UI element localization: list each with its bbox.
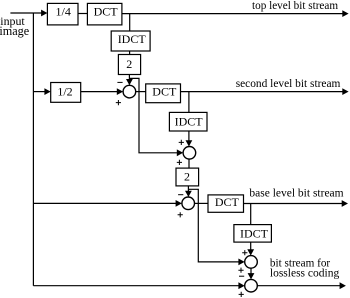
wire: top level output run [122,13,343,15]
svg-text:1/4: 1/4 [56,5,71,19]
block: IDCT top level [111,31,150,51]
block: IDCT base level [234,225,272,243]
svg-text:second level bit stream: second level bit stream [236,78,341,90]
arrowhead 1/2 into S1 left [117,88,123,95]
sign: plus at S2 left input [178,212,183,217]
wire: 1/2 to S1 [81,91,118,93]
arrowhead base level output [342,200,348,207]
block: upsample 2 (first) [118,55,140,75]
arrowhead lossless output [340,282,346,289]
block: 1/4 downscaler [47,3,78,25]
arrowhead IDCT2 into A1 [186,140,193,146]
wire: lossless output run [257,285,340,287]
wire: input to 1/4 box [10,12,42,14]
svg-text:base level bit stream: base level bit stream [249,187,343,199]
block: DCT base level [208,195,244,212]
wire: IDCT3 down to A2 [250,242,252,250]
svg-text:IDCT: IDCT [240,227,269,241]
sign: plus at A1 left input [177,160,182,165]
sign: minus at S2 top input [178,194,183,196]
svg-text:IDCT: IDCT [118,32,147,46]
block: DCT top level [87,3,122,25]
wire: second level output run [181,91,344,93]
wire: S2 to DCT3 [195,202,209,204]
svg-text:image: image [0,24,29,38]
wire: 1/4 to DCT1 connector [78,13,87,15]
svg-text:DCT: DCT [152,84,177,98]
wire: prediction bypass 2 [188,189,239,262]
wire: bottom branch to F [33,285,239,287]
arrowhead trunk into S2 [176,200,182,207]
summing node F (lossless residual) [245,279,258,292]
block: DCT second level [146,84,181,103]
sign: plus at F left input [239,292,244,297]
wire: prediction bypass 1 [129,78,177,152]
wire: junction drop DCT3 out to IDCT3 [250,204,252,225]
summing node S2 (base level difference) [182,197,195,210]
sign: plus at A1 top input [179,140,184,145]
svg-text:top level bit stream: top level bit stream [252,0,338,12]
svg-text:2: 2 [184,170,190,184]
sign: plus at A2 left input [238,268,243,273]
svg-text:DCT: DCT [94,5,119,19]
wire: A1 to 2b [188,159,190,168]
wire: junction drop DCT1 out to IDCT1 [129,14,131,31]
wire: left trunk vertical [32,13,34,286]
svg-text:2: 2 [126,57,132,71]
sign: minus at S1 top input [117,81,122,83]
wire: junction drop DCT2 out to IDCT2 [188,92,190,113]
svg-text:lossless coding: lossless coding [270,268,340,280]
wire: IDCT1 to 2a [129,51,131,55]
arrowhead bypass1 into A1 [177,149,183,156]
arrowhead second level output [342,88,348,95]
wire: trunk branch to 1/2 [33,91,45,93]
block: IDCT second level [169,112,207,131]
sign: minus at F top input [239,275,244,277]
block: upsample 2 (second) [176,168,199,186]
wire: trunk branch to S2 [33,202,176,204]
wire: IDCT2 down to A1 [188,131,190,141]
arrowhead into 1/4 [41,10,47,17]
svg-text:1/2: 1/2 [57,85,72,99]
arrowhead A2 into F [248,273,255,279]
wire: S1 to DCT2 [136,91,146,93]
arrowhead 2a into S1 [126,79,133,85]
svg-text:IDCT: IDCT [175,114,204,128]
arrowhead top level output [342,10,348,17]
arrowhead IDCT3 into A2 [247,249,254,255]
wire: 2b down to S2 [187,186,189,192]
arrowhead trunk into 1/2 [44,88,50,95]
arrowhead bypass2 into A2 [238,259,244,266]
sign: plus at A2 top input [242,250,247,255]
arrowhead trunk into F [238,282,244,289]
adder A2 (base reconstruction) [245,256,258,269]
summing node S1 (second level difference) [123,85,136,98]
svg-text:DCT: DCT [215,195,240,209]
arrowhead 2b into S2 [185,191,192,197]
adder A1 (second level reconstruction) [183,146,196,159]
wire: A2 down to F [250,268,252,274]
block: 1/2 downscaler [51,83,81,103]
wire: 2a down to S1 [128,75,130,81]
wire: base level output run [244,203,343,205]
sign: plus at S1 left input [116,100,121,105]
